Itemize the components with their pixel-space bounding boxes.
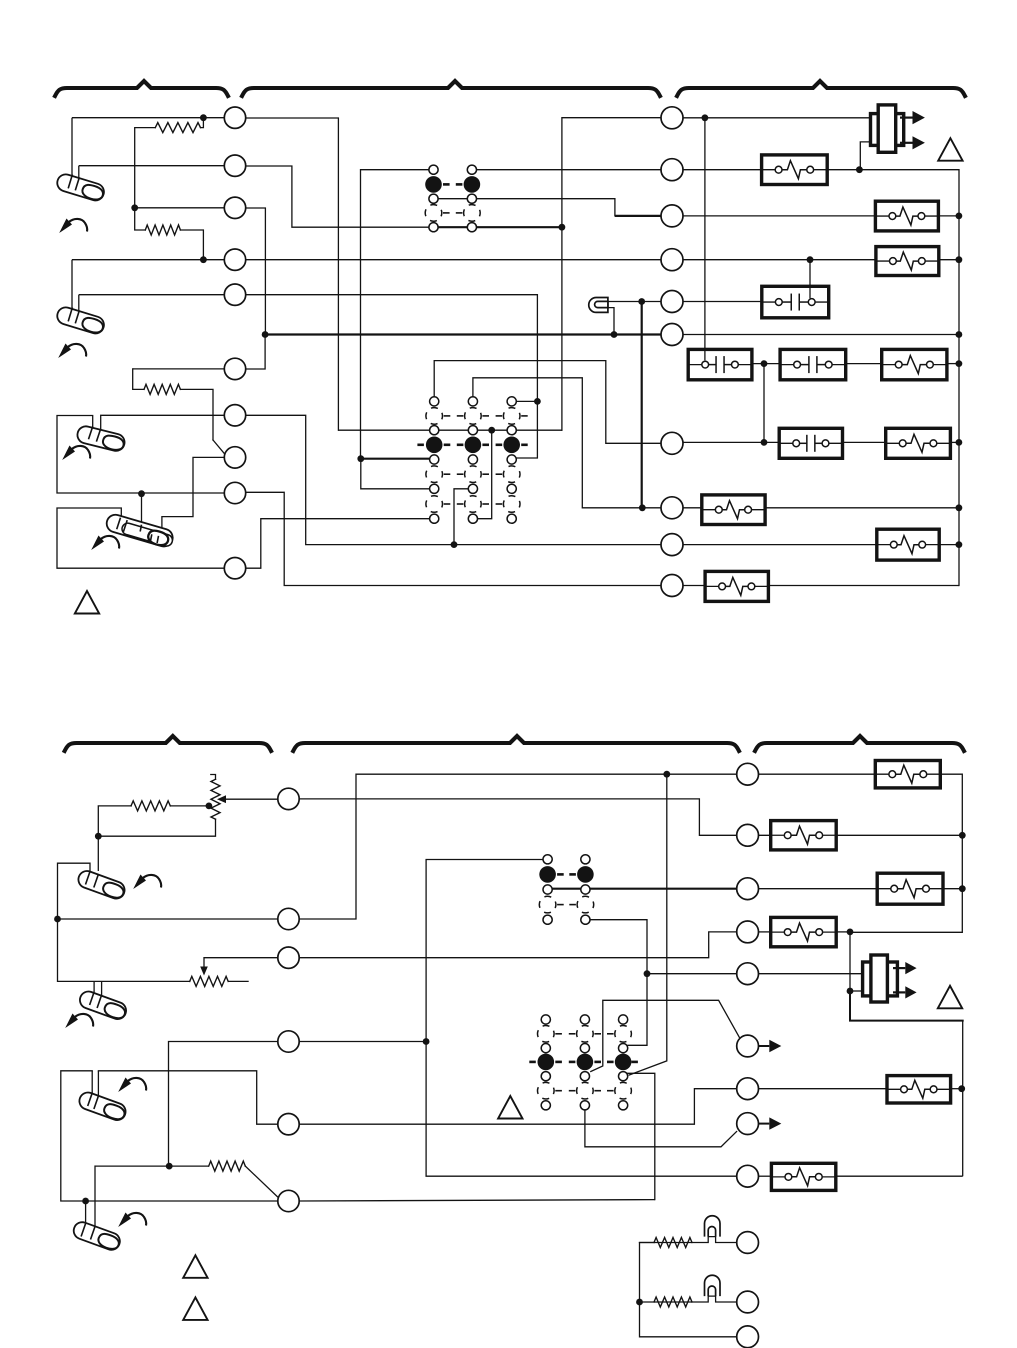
terminal T8R — [661, 497, 683, 519]
triangle note 6 — [183, 1297, 207, 1320]
mercury switch SW5 — [76, 869, 127, 901]
terminal T9R — [661, 534, 683, 556]
mercury blob SW3 — [102, 434, 126, 452]
wire switch6 electrode stubs — [93, 981, 95, 992]
junction dots (bottom diagram) — [54, 916, 61, 923]
wire vertical T1R to contact box A — [704, 118, 706, 361]
wire capboxA to capboxB row364 — [752, 363, 780, 365]
contact array B column 1 — [430, 397, 439, 406]
relay box R8 (row 442) — [886, 428, 951, 458]
motor M1 inner — [878, 105, 896, 152]
terminal T6R — [661, 324, 683, 346]
rotation arrow SW1 — [59, 219, 72, 234]
brace: system section (lower) — [755, 736, 964, 751]
wire T4B right to dot — [299, 1041, 426, 1043]
wire T1L to lower array col1 — [246, 118, 339, 430]
wire switch1 electrode feed 2 — [78, 166, 80, 179]
resistor R3 — [144, 384, 180, 394]
wire between boxes row442 — [843, 441, 886, 443]
contact box C4 (row 442) — [779, 428, 842, 458]
wire lamp circuit 2 — [640, 1296, 737, 1302]
wire T4L row left — [72, 259, 225, 261]
motor M1 outer — [871, 114, 904, 146]
wire array A bottom row thick — [434, 226, 562, 228]
contact box C2 (row 364) — [688, 349, 752, 379]
terminal B12R — [737, 1326, 759, 1348]
relay box R19 (row 1088) — [887, 1076, 951, 1103]
triangle note 4 (array lower) — [498, 1096, 522, 1119]
wire box to bus row260 — [939, 259, 959, 261]
contact array C links — [557, 873, 564, 876]
wire box to bus row888 — [943, 888, 962, 890]
wire T8L to switch4 right electrode — [162, 457, 225, 528]
relay box R16 (row 835) — [771, 821, 837, 850]
wire box to bus row544 — [939, 544, 959, 546]
wire box to bus row1088 — [951, 1088, 963, 1090]
wire T7R row to boxes — [683, 441, 780, 443]
contact array B column 3 — [507, 397, 516, 406]
wire T2B to T1R row — [299, 774, 736, 919]
triangle note 2 (top right) — [938, 138, 962, 161]
wire T3R row to box — [683, 215, 876, 217]
wire box to bus corner row169 — [827, 170, 959, 586]
junction dots (top diagram) — [200, 114, 207, 121]
wire resistor R3 diagonal to T8L — [213, 440, 226, 455]
mercury blob SW1 — [81, 183, 105, 202]
resistor R14 — [209, 1161, 246, 1171]
wire array A top row left stub — [361, 169, 430, 171]
terminal B8R — [737, 1113, 759, 1135]
mercury switch SW1 — [55, 172, 106, 202]
lamp LP3 inner — [708, 1286, 715, 1295]
wire T4R row right — [683, 259, 876, 261]
terminal B5L — [278, 1114, 299, 1135]
motor M2 arrow 2 — [893, 991, 905, 993]
terminal T2L — [224, 155, 245, 176]
wire box to bus row508 — [765, 507, 959, 509]
wire T5L to col3 path — [246, 295, 538, 458]
mercury switch SW4 electrodes — [117, 518, 121, 530]
mercury switch SW2 — [55, 305, 106, 335]
brace: thermostat section — [55, 81, 228, 96]
wire switch3 right electrode to T7L — [101, 415, 225, 428]
brace: system section — [677, 81, 965, 96]
wire upper array small3 to T5R dot — [590, 920, 647, 1046]
mercury switch SW6 — [78, 989, 129, 1021]
relay box R4 (row 170) — [762, 155, 828, 185]
contact array A column 1 — [429, 165, 438, 174]
wire lamp circuit 1 left — [640, 1243, 655, 1303]
rotation arrow SW7 — [118, 1078, 131, 1093]
wire lamp thick drop to T8R row — [641, 302, 643, 508]
wire T7R row to box — [758, 1088, 888, 1090]
terminal B4R — [737, 921, 759, 943]
wire switch1 electrode feed 1 — [71, 118, 73, 176]
wire long riser T1R-dot to col3 small3 — [629, 774, 667, 1075]
wire long riser array-small1/T4B/T9R — [426, 860, 737, 1177]
mercury blob SW5 — [101, 881, 125, 901]
resistor R2 — [145, 225, 180, 235]
resistor R22 — [654, 1297, 692, 1307]
aux terminal arrow 2 — [758, 1123, 769, 1125]
wire T4R row to box — [758, 931, 771, 933]
relay box R18 (row 932) — [771, 917, 837, 946]
motor M2 outer — [863, 962, 898, 996]
lamp LP3 outer — [705, 1275, 721, 1295]
mercury blob SW2 — [81, 316, 105, 335]
motor M1 arrow 2 — [900, 142, 913, 144]
wire T3L row left — [135, 207, 225, 209]
wire col1 small1 staircase to T7R — [434, 361, 661, 444]
wire T3L to thick bus corner — [246, 208, 266, 335]
wire T8R row to box — [683, 507, 702, 509]
contact array D column 2 — [580, 1015, 589, 1024]
wire col2 riser to small5 — [477, 430, 491, 519]
lamp LP2 outer — [705, 1216, 721, 1236]
relay box R20 (row 1176) — [771, 1163, 835, 1190]
relay box R6 (row 260) — [876, 247, 939, 276]
terminal B3R — [737, 878, 759, 900]
wire T9L to row585 — [246, 492, 662, 585]
wire T1B to T2R staircase — [299, 799, 736, 835]
contact array A links — [443, 183, 450, 186]
wire T2R row to box — [683, 169, 762, 171]
contact array A column 2 — [467, 165, 476, 174]
wire resistor row to switch8 — [94, 1166, 96, 1230]
wire lamp top lead to T5R — [608, 301, 662, 303]
mercury switch SW7 — [77, 1090, 128, 1122]
terminal B2R — [737, 824, 759, 846]
wire T10L loop to switch4 left — [57, 508, 225, 568]
terminal T5L — [224, 284, 245, 305]
wire col3 small3 to T6B riser — [628, 1073, 655, 1199]
triangle note 3 (motor lower) — [938, 986, 962, 1009]
wire T5R row to capbox — [683, 301, 762, 303]
terminal T3L — [224, 197, 245, 218]
wire array B small2 row — [338, 429, 562, 431]
wire switch7 stub A — [91, 1071, 93, 1093]
contact array C column 2 — [581, 855, 590, 864]
brace: subbase section (lower) — [293, 736, 739, 751]
wire box to bus corner row774 — [850, 774, 962, 932]
terminal T2R — [661, 159, 683, 181]
wire motor lower lead — [860, 142, 870, 170]
terminal T5R — [661, 291, 683, 313]
wire lamp bottom lead — [608, 308, 614, 335]
terminal B9R — [737, 1165, 759, 1187]
relay box R11 (row 585) — [705, 571, 768, 601]
relay box R17 (row 888) — [877, 873, 943, 904]
wire lamp circuit 2 vertical — [640, 1302, 737, 1337]
mercury switch SW4 outer — [105, 513, 175, 549]
motor M2 arrow 1 — [893, 967, 905, 969]
wire T10L to col1 small5 — [246, 519, 430, 569]
wire switch7 stub B — [97, 1071, 99, 1096]
terminal B3L — [278, 947, 299, 968]
wire col1 small4 link — [361, 459, 430, 489]
wire array A mid row step to T3R — [438, 199, 615, 216]
wire T1R left segment — [562, 117, 662, 119]
rotation arrow SW4 — [91, 536, 104, 551]
wire T9L loop to switch3 — [57, 416, 225, 494]
relay box R5 (row 216) — [875, 201, 938, 231]
wire T1R row to box — [758, 773, 876, 775]
terminal T4R — [661, 249, 683, 271]
aux terminal arrow 1 — [758, 1045, 769, 1047]
terminal T6L — [224, 358, 245, 379]
wire motor lower lead — [850, 990, 863, 992]
wire T5B row right riser to T7R — [299, 1089, 737, 1125]
resistor R21 — [654, 1238, 692, 1248]
wire switch5 to switch6 feed — [58, 919, 190, 981]
wire T4L-T4R row — [246, 259, 662, 261]
wire switch2 electrode feed 2 — [78, 295, 80, 312]
wire T9L row dot riser to switch4 mid — [141, 494, 143, 525]
wire resbox to bus row364 — [947, 363, 959, 365]
terminal T7L — [224, 405, 245, 426]
wire array A top row to T2R — [476, 169, 661, 171]
lamp LP1 outer — [589, 297, 608, 312]
terminal T3R — [661, 205, 683, 227]
wire riser into C1 right terminal — [809, 285, 811, 299]
relay box R9 (row 508) — [702, 495, 765, 525]
lamp LP1 inner — [595, 301, 608, 307]
contact array D column 3 — [619, 1015, 628, 1024]
wire box to bus row216 — [938, 215, 959, 217]
wire T1L row — [72, 117, 225, 119]
rotation arrow SW3 — [62, 446, 75, 461]
resistor R12 (pot series) — [131, 801, 170, 811]
wire lamp circuit 1 — [640, 1237, 737, 1243]
wire T1R to motor — [683, 117, 871, 119]
wire col2 small1 staircase to T8R — [473, 378, 662, 508]
brace: thermostat section (lower) — [65, 736, 272, 751]
terminal B5R — [737, 963, 759, 985]
wire T5L row left — [79, 294, 225, 296]
mercury switch SW3 — [76, 425, 127, 453]
wire riser into C2 left terminal — [704, 348, 706, 361]
wire col2 small4 drop to aux2 — [585, 1110, 737, 1147]
wire col2 small3 path to aux1 — [591, 1000, 740, 1071]
triangle note 5 — [183, 1255, 207, 1278]
contact array B column 2 — [468, 397, 477, 406]
rotation arrow SW8 — [118, 1213, 131, 1228]
wire capboxB to resbox row364 — [846, 363, 882, 365]
rotation arrow SW6 — [65, 1014, 78, 1029]
contact array C column 1 — [543, 855, 552, 864]
wire T3B row right to T4R — [299, 932, 737, 958]
terminal B4L — [278, 1031, 299, 1052]
brace: subbase section — [242, 81, 660, 96]
terminal T9L — [224, 482, 245, 503]
terminal B7R — [737, 1078, 759, 1100]
wire box to bus row835 — [836, 834, 962, 836]
triangle note 1 (top left) — [75, 591, 99, 614]
contact box C3 (row 364) — [780, 349, 846, 379]
wire motor dot to bus — [850, 991, 963, 1021]
wire thick row 334 to T6R — [265, 333, 661, 335]
wire box to bus row442 — [950, 441, 959, 443]
wire T2L row — [79, 165, 225, 167]
wire box to dot row932 — [836, 931, 850, 933]
terminal B6R — [737, 1035, 759, 1057]
wire upper array small2 thick row to T3R — [548, 888, 737, 890]
wire T4B left riser — [169, 1042, 278, 1167]
rotation arrow SW2 — [58, 344, 71, 359]
wire switch2 electrode feed 1 — [71, 260, 73, 309]
mercury switch SW8 — [71, 1220, 122, 1252]
terminal B1R — [737, 763, 759, 785]
wire T5B staircase to switch7 — [98, 1071, 277, 1124]
wire T5R row — [647, 973, 737, 975]
wire T9R row boxes — [758, 1175, 772, 1177]
wire pot wiper arrow to T1B — [226, 798, 278, 800]
mercury blob SW8 — [96, 1232, 120, 1252]
terminal T7R — [661, 432, 683, 454]
mercury blob SW7 — [102, 1102, 126, 1122]
terminal T1R — [661, 107, 683, 129]
wire T3B anticipator arrow — [204, 958, 278, 967]
wire thick seg to col1 small3 — [361, 458, 429, 460]
terminal B2L — [278, 908, 299, 929]
wire T9R row to box — [683, 544, 877, 546]
mercury switch SW4 inner wall — [121, 522, 174, 548]
terminal T4L — [224, 249, 245, 270]
contact box C1 (row 301) — [762, 286, 829, 318]
terminal B10R — [737, 1232, 759, 1254]
wire box to bus corner row585 — [768, 585, 959, 587]
wire riser capboxA-dot to T7R row — [763, 364, 765, 443]
wire riser to switch5 electrode — [97, 836, 99, 871]
wire T3R row to box — [758, 888, 878, 890]
terminal B1L — [278, 788, 299, 809]
wire T6L riser — [246, 335, 266, 370]
mercury blob SW4 — [147, 529, 170, 547]
relay box R7 (row 364) — [882, 349, 947, 379]
wire T2B row and switch5 loop — [58, 918, 278, 920]
resistor R1 heat anticipator — [155, 123, 200, 133]
wire dot riser to capbox row301 — [809, 260, 811, 299]
motor M2 inner — [871, 955, 888, 1002]
wire T6B dot riser to switch8 — [85, 1201, 87, 1226]
wire riser x360 top array to col1 — [360, 170, 362, 459]
wire T2R row to box — [736, 834, 771, 836]
wire T2L step to array bottom row — [246, 166, 430, 227]
wire T7L row right — [246, 415, 662, 544]
terminal T8L — [224, 447, 245, 468]
contact array D column 1 — [541, 1015, 550, 1024]
wire riser x562 (T1R to array rows) — [561, 118, 563, 431]
resistor R13 heat anticipator (lower) — [190, 976, 229, 986]
relay box R10 (row 544) — [877, 529, 939, 560]
wire col3 small1 link — [516, 400, 537, 402]
wire riser motor lead — [849, 932, 851, 991]
potentiometer vertical resistor — [211, 775, 216, 780]
relay box R15 (row 774) — [875, 761, 940, 788]
wire switch7 loop left — [61, 1071, 278, 1201]
terminal T10R — [661, 575, 683, 597]
contact array B links — [444, 415, 451, 417]
terminal B11R — [737, 1291, 759, 1313]
terminal T1L — [224, 107, 245, 128]
wire riser to col2 small4 — [454, 489, 468, 545]
lamp LP2 inner — [708, 1226, 715, 1235]
terminal B6L — [278, 1190, 299, 1211]
wire T6R row right — [683, 334, 959, 336]
contact array D links — [555, 1033, 562, 1035]
terminal T10L — [224, 558, 245, 579]
motor M1 arrow 1 — [900, 116, 913, 118]
wire T10R row to box — [683, 585, 706, 587]
wire col3 small2 link — [628, 1044, 647, 1046]
rotation arrow SW5 — [133, 875, 146, 890]
mercury blob SW6 — [103, 1001, 127, 1021]
wire T5R to motor — [758, 973, 863, 975]
